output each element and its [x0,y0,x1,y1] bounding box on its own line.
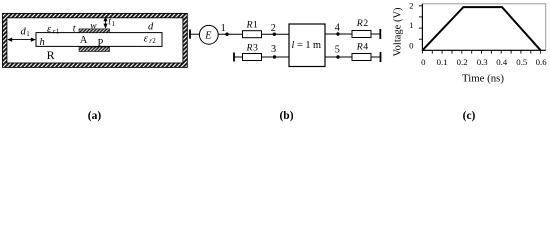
trapezoidal pulse waveform [422,7,540,50]
svg-text:R: R [356,18,363,29]
transmission line l = 1 m [289,24,325,67]
terminal bar at source return [189,30,191,39]
svg-text:4: 4 [363,42,368,53]
resistor R2 [352,31,371,38]
plot frame [422,4,545,51]
svg-text:E: E [204,31,211,42]
wire terminal to R3 [234,56,243,58]
svg-text:ε: ε [144,33,149,45]
resistor R4 [352,54,371,61]
svg-text:2: 2 [409,1,413,11]
wire line output to R4 [325,56,352,58]
svg-text:1: 1 [409,20,413,30]
svg-text:0.4: 0.4 [496,57,508,67]
y tick labels [409,1,414,51]
node 5 [336,55,339,58]
svg-text:0.3: 0.3 [477,57,489,67]
node 3 [273,55,276,58]
wire R1 to line input [262,33,290,35]
node 2 [273,33,276,36]
svg-text:2: 2 [271,23,276,34]
svg-text:5: 5 [335,44,340,55]
terminal bar at R2 [379,29,381,39]
svg-text:0: 0 [409,40,414,50]
svg-text:R: R [246,20,253,31]
svg-text:3: 3 [253,42,258,53]
svg-text:ε: ε [47,23,52,35]
wire E to R1 [218,33,242,35]
svg-text:l = 1 m: l = 1 m [292,40,322,51]
wire R2 to terminal [371,33,380,35]
svg-text:R: R [47,48,55,62]
top conductor strip A [79,29,110,33]
terminal bar at R4 [380,52,382,62]
svg-text:t: t [73,23,76,34]
svg-text:1: 1 [112,20,116,28]
svg-text:1: 1 [221,23,226,34]
y axis ticks [419,6,423,39]
source E [199,25,218,44]
svg-text:0.2: 0.2 [457,57,468,67]
svg-text:1: 1 [56,27,60,35]
svg-text:R: R [356,42,363,53]
svg-text:(a): (a) [88,110,102,122]
dimension arrow t1 [103,16,107,28]
x tick labels [421,57,547,67]
svg-text:d: d [148,22,154,33]
wire R3 to line input [262,56,290,58]
terminal bar at R3 [233,53,235,62]
svg-text:A: A [80,35,88,46]
enclosure shield wall R (hatched frame) [3,13,188,67]
node 1 [225,33,228,36]
x axis [422,49,546,51]
node 4 [336,32,339,35]
svg-text:0.5: 0.5 [516,57,528,67]
svg-text:0: 0 [421,57,426,67]
substrate (dielectric slab) [36,33,162,47]
svg-text:P: P [98,38,104,49]
svg-text:R: R [246,42,253,53]
wire line output to R2 [325,33,352,35]
svg-text:3: 3 [271,44,276,55]
svg-text:2: 2 [363,18,368,29]
wire terminal to source E [190,33,200,35]
svg-text:0.1: 0.1 [437,57,448,67]
dimension arrow d1 [7,38,36,42]
svg-text:Time (ns): Time (ns) [462,73,504,85]
svg-text:w: w [90,21,97,31]
x axis ticks [422,50,540,53]
svg-text:1: 1 [26,30,30,38]
resistor R1 [243,31,262,38]
svg-text:h: h [40,37,45,48]
svg-text:4: 4 [335,23,340,34]
y axis [421,4,423,51]
svg-text:Voltage (V): Voltage (V) [393,7,404,57]
bottom conductor strip P [79,47,110,52]
wire R4 to terminal [371,56,381,58]
svg-text:2: 2 [152,37,156,45]
svg-text:(b): (b) [279,110,293,122]
svg-text:0.6: 0.6 [536,57,548,67]
svg-text:(c): (c) [463,110,476,122]
svg-text:1: 1 [253,20,258,31]
resistor R3 [243,54,262,61]
